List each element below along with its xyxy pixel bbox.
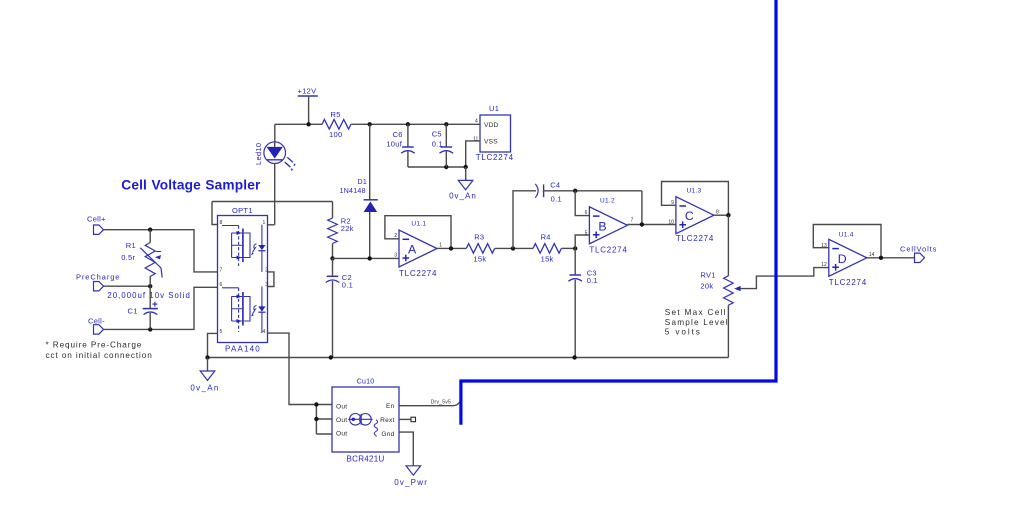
- svg-text:Led10: Led10: [254, 143, 263, 165]
- svg-text:Out: Out: [336, 431, 347, 438]
- pin text VDD: [484, 122, 499, 129]
- wire C4 right to feedback: [544, 190, 642, 192]
- wire C6 leads: [407, 124, 409, 167]
- svg-text:Cell+: Cell+: [87, 215, 106, 224]
- wire ground stem (0v_An U1): [465, 167, 467, 180]
- svg-text:TLC2274: TLC2274: [399, 269, 437, 278]
- label Cell-: [88, 317, 105, 326]
- svg-text:B: B: [598, 219, 606, 233]
- label PreCharge: [76, 272, 120, 281]
- value 0.1 (C3): [587, 276, 598, 285]
- wire C4 left leg: [513, 191, 536, 249]
- RV1 wiper arrow: [734, 286, 740, 291]
- value 15k (R3): [473, 255, 486, 264]
- pin number 4 (OPT1): [263, 329, 266, 335]
- svg-text:20k: 20k: [700, 281, 713, 290]
- pin number 9 (U1.3): [671, 200, 674, 206]
- wire D feedback loop: [813, 225, 881, 258]
- wire R3-R4: [495, 247, 533, 249]
- label 0v_An (rail): [190, 383, 219, 392]
- wire U1 VSS: [466, 141, 480, 167]
- svg-text:RV1: RV1: [700, 271, 715, 280]
- svg-text:3: 3: [394, 253, 397, 259]
- IC Cu10 box: [332, 387, 399, 452]
- value 20,000uf 10v Solid (C1): [107, 291, 190, 300]
- node R2 / C2 junction: [330, 256, 334, 260]
- label 0v_Pwr: [394, 478, 428, 487]
- ground 0v_Pwr: [406, 466, 421, 475]
- value 0.1 (C5): [432, 140, 443, 149]
- svg-text:C6: C6: [393, 130, 403, 139]
- resistor R4: [533, 244, 561, 254]
- svg-text:Out: Out: [336, 404, 347, 411]
- svg-text:C1: C1: [128, 307, 138, 316]
- pin text VSS: [484, 138, 498, 145]
- wire Cell- to OPT1 pin6: [104, 287, 218, 329]
- svg-text:C: C: [685, 209, 694, 223]
- wire +12V rail right: [351, 123, 480, 125]
- svg-text:11: 11: [473, 137, 478, 143]
- pin text Gnd: [381, 431, 394, 438]
- svg-text:VDD: VDD: [484, 122, 499, 129]
- wire A noninverting input: [333, 257, 400, 259]
- label RV1: [700, 271, 715, 280]
- diode D1 1N4148: [364, 200, 378, 212]
- svg-text:U1: U1: [489, 104, 499, 113]
- svg-text:5: 5: [220, 329, 223, 335]
- wire analog ground rail: [208, 357, 729, 359]
- svg-text:Rext: Rext: [380, 417, 394, 424]
- svg-text:5 volts: 5 volts: [665, 328, 702, 337]
- resistor R2: [328, 218, 338, 243]
- svg-text:D: D: [838, 252, 847, 266]
- resistor R1 (pre-charge): [140, 243, 162, 278]
- svg-text:U1.3: U1.3: [687, 188, 702, 195]
- label 0v_An (U1): [449, 192, 477, 201]
- pin number 6 (OPT1): [220, 282, 223, 288]
- wire A output: [437, 247, 466, 249]
- pin number 13 (U1.4): [821, 243, 827, 249]
- label D1: [358, 179, 368, 186]
- Cu10 Rext squiggle: [374, 420, 377, 437]
- svg-text:6: 6: [220, 282, 223, 288]
- svg-text:C5: C5: [432, 129, 442, 138]
- node rail / OPT1 pin5 / ground junction: [205, 355, 209, 359]
- wire cap bottom rail: [408, 166, 466, 168]
- svg-text:4: 4: [475, 118, 478, 124]
- svg-text:Out: Out: [336, 417, 347, 424]
- wire Rext stub: [399, 417, 416, 422]
- svg-text:En: En: [386, 403, 395, 410]
- label TLC2274 (U1.1): [399, 269, 437, 278]
- svg-text:8: 8: [716, 209, 719, 215]
- note line 1: [46, 340, 143, 349]
- svg-text:U1.2: U1.2: [600, 197, 615, 204]
- svg-text:10uf: 10uf: [386, 140, 402, 149]
- svg-text:VSS: VSS: [484, 138, 498, 145]
- svg-text:PAA140: PAA140: [225, 344, 261, 353]
- op-amp U1.2: [589, 207, 627, 244]
- node B output junction: [640, 222, 644, 226]
- svg-text:A: A: [408, 243, 417, 257]
- svg-text:Cell Voltage Sampler: Cell Voltage Sampler: [121, 178, 261, 193]
- svg-text:CellVolts: CellVolts: [900, 244, 937, 253]
- svg-text:BCR421U: BCR421U: [347, 455, 385, 464]
- wire PreCharge: [104, 285, 151, 287]
- label U1: [489, 104, 499, 113]
- pin number 3 (U1.1): [394, 253, 397, 259]
- wire En to Drv_5v5: [399, 402, 460, 406]
- wire LED top: [274, 124, 276, 142]
- value 1N4148 (D1): [340, 188, 366, 195]
- svg-text:5: 5: [585, 230, 588, 236]
- pin number 1 (OPT1): [263, 220, 266, 226]
- value 100 (R5): [329, 130, 342, 139]
- capacitor C4 (series): [535, 184, 543, 198]
- IC OPT1 box: [218, 216, 268, 343]
- connector Cell-: [94, 325, 104, 334]
- svg-text:7: 7: [220, 267, 223, 273]
- LED Led10: [264, 142, 286, 164]
- wire C1 leads: [149, 286, 151, 329]
- op-amp U1.1: [399, 230, 437, 267]
- svg-text:0.1: 0.1: [551, 194, 562, 203]
- pin number 7 (OPT1): [220, 267, 223, 273]
- node Cell+ / R1 junction: [148, 228, 152, 232]
- pin number 11 (U1 VSS): [473, 137, 478, 143]
- svg-text:* Require Pre-Charge: * Require Pre-Charge: [46, 340, 143, 349]
- svg-text:C4: C4: [550, 181, 560, 190]
- wire C2 leads: [332, 258, 334, 357]
- wire R2 bottom lead: [332, 244, 334, 259]
- node C5 top junction: [444, 122, 448, 126]
- capacitor C5: [440, 147, 454, 153]
- value 0.5r (R1): [121, 253, 135, 262]
- svg-text:R1: R1: [126, 241, 136, 250]
- svg-text:Set Max Cell: Set Max Cell: [665, 308, 727, 317]
- svg-text:Gnd: Gnd: [381, 431, 394, 438]
- label C3: [587, 269, 597, 278]
- label C1: [128, 307, 138, 316]
- pin number 4 (U1 VDD): [475, 118, 478, 124]
- node R3/R4/C4 junction: [511, 246, 515, 250]
- wire RV1 bottom: [727, 305, 729, 357]
- pin number 6 (U1.2): [585, 210, 588, 216]
- wire D1 stem: [369, 124, 371, 258]
- label TLC2274 (U1.3): [676, 234, 714, 243]
- label U1.3: [687, 188, 702, 195]
- ground 0v_An (rail): [200, 371, 215, 380]
- pin number 12 (U1.4): [821, 262, 827, 268]
- label TLC2274 (U1): [476, 153, 514, 162]
- wire OPT1 pins 2-3 link: [268, 272, 274, 287]
- pin number 5 (U1.2): [585, 230, 588, 236]
- net label Drv_5v5: [431, 400, 451, 406]
- svg-text:1N4148: 1N4148: [340, 188, 366, 195]
- pin number 2 (U1.1): [394, 233, 397, 239]
- wire B output: [627, 224, 676, 226]
- label TLC2274 (U1.2): [589, 246, 627, 255]
- node Out1 junction: [314, 402, 318, 406]
- svg-text:PreCharge: PreCharge: [76, 272, 120, 281]
- node rail / C2 junction: [329, 355, 333, 359]
- svg-text:TLC2274: TLC2274: [589, 246, 627, 255]
- label BCR421U (Cu10): [347, 455, 385, 464]
- Cu10 current source symbol: [348, 414, 372, 426]
- pin number 7 (U1.2): [631, 218, 634, 224]
- LED emission arrows: [285, 157, 296, 171]
- pin number 8 (OPT1): [220, 220, 223, 226]
- svg-text:U1.4: U1.4: [839, 231, 854, 238]
- label TLC2274 (U1.4): [829, 278, 867, 287]
- label Cell+: [87, 215, 106, 224]
- svg-text:1: 1: [263, 220, 266, 226]
- wire R4 to B input node: [561, 247, 575, 249]
- wire RV1 wiper to D input: [741, 268, 829, 289]
- resistor R3: [466, 244, 494, 254]
- label U1.4: [839, 231, 854, 238]
- capacitor C3: [568, 275, 582, 281]
- wire C feedback loop: [662, 182, 729, 216]
- IC U1 power box: [480, 115, 511, 152]
- svg-text:0v_Pwr: 0v_Pwr: [394, 478, 428, 487]
- wire Gnd to 0v_Pwr: [399, 432, 413, 466]
- label C4: [550, 181, 560, 190]
- wire Cu10 Out bus: [316, 405, 332, 435]
- svg-text:0.1: 0.1: [342, 281, 353, 290]
- value 0.1 (C2): [342, 281, 353, 290]
- node Cell- / C1 junction: [148, 327, 152, 331]
- label C5: [432, 129, 442, 138]
- wire R2 top lead: [332, 202, 334, 219]
- svg-text:20,000uf 10v Solid: 20,000uf 10v Solid: [107, 291, 190, 300]
- svg-text:U1.1: U1.1: [411, 221, 426, 228]
- pin number 1 (U1.1): [439, 243, 442, 249]
- pin number 10 (U1.3): [668, 220, 674, 226]
- node PreCharge / R1 / C1 junction: [148, 284, 152, 288]
- label C2: [342, 273, 352, 282]
- label R4: [541, 233, 551, 242]
- pin number 2 (OPT1): [265, 267, 268, 273]
- svg-text:Cu10: Cu10: [357, 378, 375, 385]
- svg-text:10: 10: [668, 220, 674, 226]
- svg-text:Drv_5v5: Drv_5v5: [431, 400, 451, 406]
- pin number 5 (OPT1): [220, 329, 223, 335]
- power symbol +12V: [298, 87, 318, 125]
- value 10uf (C6): [386, 140, 402, 149]
- node D output junction: [879, 256, 883, 260]
- node C4 / B inverting junction: [573, 189, 577, 193]
- wire C5 leads: [445, 124, 447, 167]
- wire +12V rail left: [275, 123, 322, 125]
- svg-text:Sample Level: Sample Level: [665, 318, 729, 327]
- label U1.2: [600, 197, 615, 204]
- wire OPT1 pin4 to Cu10: [268, 333, 317, 404]
- label R2: [341, 217, 351, 226]
- wire OPT1 pin1 stub: [268, 224, 275, 226]
- svg-text:R5: R5: [331, 110, 341, 119]
- svg-text:cct on initial connection: cct on initial connection: [46, 351, 153, 360]
- svg-text:15k: 15k: [473, 255, 486, 264]
- node A output junction: [449, 246, 453, 250]
- svg-text:OPT1: OPT1: [232, 206, 253, 215]
- value 15k (R4): [541, 255, 554, 264]
- wire ground stem (0v_An rail): [207, 358, 209, 372]
- text Set Max Cell: [665, 308, 727, 317]
- wire B feedback: [641, 191, 643, 225]
- pin number 8 (U1.3): [716, 209, 719, 215]
- node +12V rail / +12V tap junction: [306, 122, 310, 126]
- svg-text:0v_An: 0v_An: [449, 192, 477, 201]
- op-amp U1.4: [829, 239, 867, 276]
- svg-text:TLC2274: TLC2274: [476, 153, 514, 162]
- pin text Out 3: [336, 431, 347, 438]
- ground 0v_An (U1): [458, 180, 473, 189]
- node VSS ground junction: [464, 165, 468, 169]
- op-amp U1.3: [676, 197, 714, 234]
- svg-text:4: 4: [263, 329, 266, 335]
- node D1 top junction: [368, 122, 372, 126]
- label OPT1: [232, 206, 253, 215]
- svg-text:6: 6: [585, 210, 588, 216]
- svg-text:7: 7: [631, 218, 634, 224]
- pin text Out 1: [336, 404, 347, 411]
- svg-text:15k: 15k: [541, 255, 554, 264]
- connector Cell+: [94, 225, 104, 234]
- label Cu10: [357, 378, 375, 385]
- svg-text:22k: 22k: [341, 224, 354, 233]
- label PAA140 (OPT1): [225, 344, 261, 353]
- note line 2: [46, 351, 153, 360]
- svg-text:TLC2274: TLC2274: [829, 278, 867, 287]
- svg-text:R4: R4: [541, 233, 551, 242]
- wire to B inverting input: [575, 191, 589, 216]
- label C6: [393, 130, 403, 139]
- capacitor C6: [401, 147, 415, 153]
- pin text Rext: [380, 417, 394, 424]
- connector CellVolts: [915, 253, 925, 262]
- label CellVolts: [900, 244, 937, 253]
- label U1.1: [411, 221, 426, 228]
- svg-text:0.5r: 0.5r: [121, 253, 135, 262]
- resistor R5: [322, 120, 351, 130]
- svg-text:0.1: 0.1: [432, 140, 443, 149]
- node R4 / C3 / B+ junction: [573, 246, 577, 250]
- svg-text:+12V: +12V: [298, 87, 317, 96]
- svg-text:TLC2274: TLC2274: [676, 234, 714, 243]
- node C5 bottom junction: [444, 165, 448, 169]
- label Led10 (rotated): [254, 143, 263, 165]
- value 22k (R2): [341, 224, 354, 233]
- potentiometer RV1: [724, 276, 734, 305]
- text Sample Level: [665, 318, 729, 327]
- label R3: [474, 233, 484, 242]
- value 20k (RV1): [700, 281, 713, 290]
- node rail / C3 junction: [572, 355, 576, 359]
- pin text Out 2: [336, 417, 347, 424]
- pin number 14 (U1.4): [869, 252, 875, 258]
- wire R1 leads: [149, 230, 151, 287]
- title Cell Voltage Sampler: [121, 178, 261, 193]
- highlighted net Drv_5v5 (thick blue): [461, 0, 776, 425]
- wire C output to RV1: [727, 215, 729, 276]
- node C output junction: [726, 213, 730, 217]
- svg-text:0.1: 0.1: [587, 276, 598, 285]
- node C6 top junction: [406, 122, 410, 126]
- svg-text:0v_An: 0v_An: [190, 383, 219, 392]
- wire OPT1 pin8 feed: [212, 202, 218, 225]
- value 0.1 (C4): [551, 194, 562, 203]
- wire OPT1 pin5 to ground rail: [208, 333, 218, 357]
- node Out2 junction: [314, 417, 318, 421]
- wire pin8-to-R2 rail: [212, 201, 333, 203]
- pin number 3 (OPT1): [265, 282, 268, 288]
- wire A feedback loop: [385, 216, 451, 249]
- wire C output: [714, 214, 729, 216]
- svg-text:100: 100: [329, 130, 342, 139]
- pin text En: [386, 403, 395, 410]
- svg-text:12: 12: [821, 262, 827, 268]
- wire D output: [867, 257, 915, 259]
- wire to B noninverting input: [575, 235, 589, 248]
- label R5: [331, 110, 341, 119]
- wire Cell+ to OPT1 pin7: [104, 230, 218, 272]
- text 5 volts: [665, 328, 702, 337]
- optocoupler OPT1 channel 2 internals: [222, 287, 266, 334]
- label R1: [126, 241, 136, 250]
- svg-text:R3: R3: [474, 233, 484, 242]
- capacitor C2: [326, 276, 340, 282]
- wire C3 leads: [574, 248, 576, 357]
- wire LED bottom: [274, 164, 276, 225]
- node D1 / A input junction: [368, 256, 372, 260]
- optocoupler OPT1 channel 1 internals: [222, 225, 266, 272]
- capacitor C1 (polarized): [143, 302, 158, 315]
- svg-text:D1: D1: [358, 179, 368, 186]
- connector PreCharge: [94, 282, 104, 291]
